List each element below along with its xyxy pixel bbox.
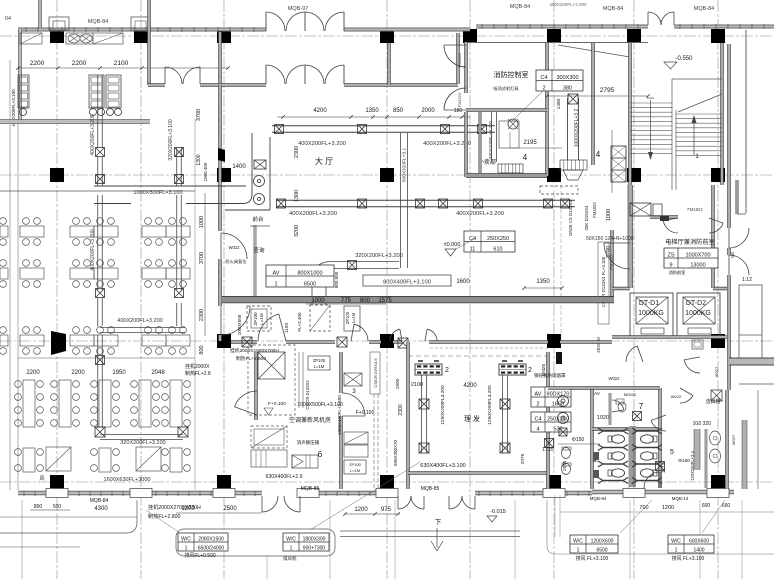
svg-text:2100: 2100 [411,382,423,388]
svg-text:320X200FL+3.100: 320X200FL+3.100 [168,119,174,161]
svg-text:6: 6 [318,450,323,459]
svg-text:挂机2000X: 挂机2000X [185,363,210,370]
svg-text:250X250: 250X250 [487,236,509,242]
urinals [558,428,600,475]
office riser duct upper [90,75,105,186]
corridor north wall thick [222,297,614,303]
svg-text:MQB-97: MQB-97 [288,6,308,12]
svg-text:制热FL+2.800: 制热FL+2.800 [148,512,181,520]
svg-text:13000: 13000 [690,262,705,268]
svg-text:2000X1500: 2000X1500 [198,536,224,542]
svg-text:制热FL+2.800: 制热FL+2.800 [236,355,266,362]
svg-text:FM1022: FM1022 [457,52,462,67]
office duct lower [39,335,188,483]
svg-text:2075: 2075 [520,453,526,464]
svg-text:2: 2 [536,401,539,407]
svg-text:3700: 3700 [196,109,202,121]
left exterior boundary [10,0,41,490]
svg-text:4300: 4300 [94,506,108,512]
svg-text:2300: 2300 [294,146,300,158]
svg-text:320X200FL+3.200: 320X200FL+3.200 [355,253,403,259]
table AV 800X1000 [266,265,334,287]
barber fan coil units [415,361,532,375]
svg-text:1000: 1000 [311,298,325,304]
svg-text:975: 975 [381,507,392,513]
svg-text:消防控制室: 消防控制室 [494,70,529,79]
svg-text:MQB-85: MQB-85 [421,486,440,492]
svg-text:600: 600 [702,503,711,509]
shop south wall [466,112,547,178]
barber labels [393,378,526,469]
svg-text:1350: 1350 [536,279,550,285]
svg-text:900+7300: 900+7300 [303,545,326,551]
svg-text:MQB-84: MQB-84 [510,4,530,10]
svg-text:L=1M: L=1M [350,468,360,473]
svg-text:C4: C4 [534,416,541,422]
svg-text:W022: W022 [229,245,241,250]
svg-text:4: 4 [596,150,601,159]
svg-text:CS/CR D133X4: CS/CR D133X4 [305,380,310,410]
elevator lobby walls [611,185,715,296]
svg-text:1000X700: 1000X700 [685,252,710,258]
svg-text:DT-D2: DT-D2 [686,300,706,307]
svg-text:查询: 查询 [253,246,265,254]
bottom dims left [176,506,262,513]
sidewalk steps bottom left [0,500,520,579]
svg-text:大 厅: 大 厅 [315,156,333,166]
svg-text:FM1822: FM1822 [687,207,703,212]
svg-text:DT-D1: DT-D1 [639,300,659,307]
svg-text:AV: AV [535,391,542,397]
svg-text:800: 800 [360,298,371,304]
svg-text:W/C: W/C [181,536,191,542]
misc text right corridor [534,352,566,379]
svg-text:理 发: 理 发 [464,414,480,423]
duct y265 320X200 with drop [312,253,470,304]
svg-text:1480: 1480 [556,98,562,109]
table WC 1200X600 [570,535,618,562]
svg-text:4: 4 [523,153,528,162]
bottom exterior curtain wall [18,489,734,498]
svg-text:ZP100: ZP100 [313,358,326,363]
AHU room labels [265,395,374,480]
svg-text:2100: 2100 [114,60,129,67]
svg-text:F+0.100: F+0.100 [268,401,286,407]
right corridor ramp [728,30,774,390]
reception partition [250,215,270,300]
svg-text:800: 800 [199,345,205,354]
barber tables AV C4 [531,387,571,453]
svg-text:530: 530 [553,426,562,432]
svg-text:MQB-84: MQB-84 [90,498,109,504]
svg-text:11: 11 [470,246,476,252]
leader lines bottom [146,462,725,533]
svg-text:W/C: W/C [671,538,681,544]
svg-text:1: 1 [274,281,277,287]
doors south of elevator hall [594,346,719,396]
svg-text:FM1022: FM1022 [457,92,462,107]
fire room doors [444,45,466,110]
svg-text:320X200FL+3.200: 320X200FL+3.200 [120,440,165,446]
svg-text:钢砼板防雨烟罩: 钢砼板防雨烟罩 [534,372,566,379]
svg-text:1725: 1725 [542,447,554,453]
bottom wall labels [30,486,689,512]
main riser duct 1000X200 [523,94,601,180]
svg-text:MQB-84: MQB-84 [88,19,108,25]
svg-text:2: 2 [542,85,545,91]
svg-text:W022: W022 [609,376,621,381]
svg-text:400X200FL+3.200: 400X200FL+3.200 [298,141,346,147]
level ±0.000 lobby [444,238,476,256]
svg-text:AV: AV [594,391,600,396]
lobby label [294,146,333,237]
svg-text:W/C: W/C [573,538,583,544]
svg-text:6500: 6500 [304,281,316,287]
svg-text:吸顶式射灯具: 吸顶式射灯具 [493,85,519,92]
curtain wall labels [5,2,714,25]
svg-text:400X200FL+3.200: 400X200FL+3.200 [488,121,493,159]
svg-text:ZP100: ZP100 [253,312,258,326]
corridor silencer boxes [237,305,360,335]
svg-text:7: 7 [639,402,644,411]
svg-text:610: 610 [493,246,502,252]
ceiling fan and dim 2195 [508,119,562,148]
toilet walls [548,387,661,489]
svg-text:M0: M0 [730,251,735,257]
svg-text:4200: 4200 [313,108,327,114]
svg-text:500: 500 [53,504,62,510]
table C4 300X300 [512,70,583,121]
svg-text:300X300: 300X300 [556,75,578,81]
entrance canopy and window sill fixtures top-left [20,17,150,44]
dim 2795 [545,87,650,98]
svg-text:1575: 1575 [562,460,568,471]
svg-text:下: 下 [435,518,442,526]
corridor south wall with doors [231,314,612,356]
svg-text:L=1M: L=1M [314,364,325,369]
svg-text:25X860: 25X860 [596,337,601,353]
coat-room cabinets [11,75,122,127]
svg-text:775: 775 [341,298,352,304]
svg-text:L=1M: L=1M [351,312,356,323]
level -0.550 [664,56,693,69]
svg-text:1200: 1200 [181,506,195,512]
table WC 2000X1500 [178,533,228,559]
svg-text:前台: 前台 [252,215,264,223]
table WC 1800X300 [283,533,329,562]
svg-text:400X200FL+3.200: 400X200FL+3.200 [423,141,471,147]
svg-text:800X1000: 800X1000 [297,270,322,276]
AHU room walls [255,352,343,489]
svg-text:400X200FL+2.000: 400X200FL+2.000 [549,2,587,7]
svg-text:2000: 2000 [421,108,435,114]
svg-text:Φ150: Φ150 [678,458,690,464]
svg-text:500X320FL+3.1: 500X320FL+3.1 [402,148,408,183]
svg-text:1250X200FL3.200: 1250X200FL3.200 [487,385,493,425]
svg-text:DN25: DN25 [541,364,547,377]
shaft grille near stair [611,146,626,182]
toilet labels [562,402,690,488]
columns (black squares at grid intersections) [50,29,725,489]
vertical duct 500X320 lobby [401,133,408,268]
svg-text:9: 9 [669,262,672,268]
svg-text:800: 800 [34,504,43,510]
entrance vestibule double doors [266,12,344,84]
svg-text:2195: 2195 [523,140,537,146]
svg-text:1400: 1400 [693,547,704,553]
svg-text:3200: 3200 [294,225,300,237]
office duct runs middle [90,175,185,333]
svg-text:2200: 2200 [26,370,40,376]
wash basins right [651,388,722,488]
svg-text:6500/24000: 6500/24000 [198,545,225,551]
double door top right [648,12,674,25]
svg-text:W027: W027 [731,434,736,445]
svg-text:2: 2 [528,367,532,374]
svg-text:1: 1 [675,547,678,553]
svg-text:1: 1 [185,545,188,551]
svg-text:M0922: M0922 [624,392,637,397]
down arrow bottom [431,518,443,551]
duct y203 400X200 [276,199,575,217]
svg-text:1400: 1400 [232,164,246,170]
svg-text:910 320: 910 320 [693,421,711,427]
vestibule partition walls [148,0,460,86]
office desks horizontal rows [0,218,190,355]
table C4 250X250 lobby [464,231,515,252]
svg-text:排风机: 排风机 [283,555,297,562]
svg-text:MQB-85: MQB-85 [301,486,320,492]
elevators DT-D1 DT-D2 [612,287,727,349]
svg-text:650: 650 [722,503,731,509]
svg-text:850: 850 [393,108,404,114]
svg-text:排风 FL+3.100: 排风 FL+3.100 [672,555,705,562]
svg-text:消防前室: 消防前室 [669,269,686,276]
doors in lobby west wall [221,233,250,335]
svg-text:1000KG: 1000KG [685,310,711,317]
office riser duct 320X200 [168,109,208,186]
svg-text:1000X400FL+3.400: 1000X400FL+3.400 [337,395,342,435]
svg-text:防火阀复位: 防火阀复位 [226,258,247,265]
barber vertical ducts [419,375,510,453]
svg-text:380: 380 [563,85,572,91]
svg-text:1575: 1575 [378,298,392,304]
bottom dims center [293,507,400,516]
svg-text:排风FL+0.500: 排风FL+0.500 [184,552,215,559]
office partition walls left [0,119,195,490]
svg-text:2300: 2300 [398,404,404,416]
staircase [629,43,724,190]
lobby west wall x220 [219,85,222,341]
AHU silencer and fan [251,426,366,474]
svg-text:1000X200FL+3.2: 1000X200FL+3.2 [574,109,580,148]
svg-text:1900: 1900 [395,378,401,389]
svg-text:1950: 1950 [112,370,126,376]
svg-text:AV: AV [273,270,280,276]
svg-text:W022: W022 [671,394,682,399]
vent shaft at lobby [630,203,669,221]
svg-text:50X150 124+N+1000: 50X150 124+N+1000 [586,236,634,242]
AHU indoor unit box [230,345,295,415]
svg-text:1000KG: 1000KG [638,310,664,317]
svg-text:600X600: 600X600 [689,538,709,544]
level -0.015 [487,509,506,522]
svg-text:1200: 1200 [662,505,674,511]
svg-text:W/C: W/C [286,536,296,542]
svg-text:风: 风 [39,476,44,482]
elevator lobby label and table [664,238,718,276]
svg-text:空调兼新风机房: 空调兼新风机房 [289,416,331,424]
table WC 600X600 [668,535,714,562]
svg-text:C4: C4 [540,75,547,81]
svg-text:1600: 1600 [456,279,470,285]
svg-text:2300: 2300 [199,309,205,321]
toilet stalls and WCs [598,428,662,484]
svg-text:25K D153X4: 25K D153X4 [584,205,589,230]
svg-text:1: 1 [290,545,293,551]
svg-text:2200: 2200 [72,60,87,67]
svg-text:W027: W027 [714,366,719,377]
svg-text:3700: 3700 [199,252,205,264]
svg-text:1200X600: 1200X600 [591,538,614,544]
svg-text:Φ150: Φ150 [572,437,585,443]
svg-text:1000 400: 1000 400 [203,162,208,181]
svg-text:4200: 4200 [463,383,477,389]
svg-text:1100: 1100 [284,323,290,334]
svg-text:1:12: 1:12 [742,277,752,283]
svg-text:1250X200FL3.200: 1250X200FL3.200 [440,385,446,425]
svg-text:排风 FL+3.100: 排风 FL+3.100 [576,555,609,562]
fire room duct and grille [488,112,523,177]
svg-text:2500: 2500 [223,506,237,512]
svg-text:MQB-84: MQB-84 [590,496,607,501]
svg-text:MQB-14: MQB-14 [672,496,689,501]
svg-text:1: 1 [577,547,580,553]
svg-text:500X300X70: 500X300X70 [393,439,398,466]
svg-text:2795: 2795 [600,87,615,94]
svg-text:1300: 1300 [294,190,300,202]
svg-text:L=1M: L=1M [259,313,264,325]
svg-text:FM1822: FM1822 [609,254,614,270]
bottom unit label [148,503,201,520]
svg-text:1920: 1920 [597,415,609,421]
svg-text:1000X500: 1000X500 [237,314,242,335]
bottom dims right [639,503,730,511]
pipe labels near elevator [522,185,634,353]
svg-text:MQB-84: MQB-84 [603,6,623,12]
svg-text:挂机2000X1600X700H: 挂机2000X1600X700H [230,347,279,354]
vertical dimension strip [199,130,612,355]
office desks vertical rows [15,380,191,472]
svg-text:400X200FL+3.200: 400X200FL+3.200 [90,229,96,271]
svg-text:1000: 1000 [606,209,612,221]
svg-text:消声静压箱: 消声静压箱 [297,439,320,446]
double door lobby west [165,67,200,84]
elevator lobby doors [604,207,723,270]
svg-text:4: 4 [536,426,539,432]
svg-text:120X250FL+3.4: 120X250FL+3.4 [690,450,695,481]
svg-text:400X200FL+3.200: 400X200FL+3.200 [456,211,504,217]
svg-text:ZP100: ZP100 [349,462,362,467]
svg-text:2200: 2200 [30,60,45,67]
svg-text:1800X300: 1800X300 [303,536,326,542]
svg-text:1600X630FL+3000: 1600X630FL+3000 [104,477,151,483]
svg-text:1300: 1300 [196,154,202,165]
svg-text:400X200FL+3.200: 400X200FL+3.200 [90,114,96,156]
svg-text:FM1822: FM1822 [592,202,597,218]
barber room walls [407,342,550,489]
svg-text:180: 180 [454,108,463,114]
toilet right boundary walls [726,390,758,489]
svg-text:1350: 1350 [365,108,379,114]
svg-text:6500: 6500 [596,547,607,553]
svg-text:-0.550: -0.550 [675,56,693,62]
svg-text:2048: 2048 [151,370,165,376]
fire room labels [478,70,529,166]
svg-text:5: 5 [670,449,674,456]
svg-text:FL+2.400: FL+2.400 [297,312,302,332]
svg-text:-0.015: -0.015 [490,509,506,515]
svg-text:MQB-84: MQB-84 [694,6,714,12]
dimension line 2200 2200 2100 [16,60,230,70]
fire control room walls [465,42,648,177]
svg-text:2200: 2200 [71,370,85,376]
svg-text:DN25 CS D133X4: DN25 CS D133X4 [568,200,573,236]
svg-text:2: 2 [445,367,449,374]
svg-text:800 600: 800 600 [334,271,339,288]
svg-text:630X400FL+2.9: 630X400FL+2.9 [265,474,302,480]
svg-text:400X200FL+3.200: 400X200FL+3.200 [289,211,337,217]
svg-text:±0.000: ±0.000 [444,242,461,248]
office dims 2200 2200 1950 2048 [18,358,211,377]
svg-text:电梯厅兼消防前室: 电梯厅兼消防前室 [665,238,715,246]
svg-text:400X200FL+3.200: 400X200FL+3.200 [117,318,162,324]
lobby dimension line [277,108,470,119]
svg-text:ZS: ZS [667,252,674,258]
svg-text:ZP100: ZP100 [345,311,350,324]
setting out lines bottom [267,495,774,579]
svg-text:制热FL+2.8: 制热FL+2.8 [185,370,211,377]
svg-text:800X400FL+3.100: 800X400FL+3.100 [383,280,431,286]
svg-text:630X400FL+3.100: 630X400FL+3.100 [420,463,465,469]
svg-text:1000: 1000 [199,216,205,228]
bottom wall exit doors [262,496,475,512]
corridor dim 1000 775 800 1575 [306,298,392,304]
toilet room 7 fixtures [609,392,642,425]
AHU room small equipment [299,352,380,489]
wide duct 1000X500 and elbow [94,133,270,210]
svg-text:04: 04 [5,16,11,22]
wall pier wedge [218,148,225,162]
lobby supply duct y129 400X200 [272,125,495,148]
svg-text:1200: 1200 [354,507,368,513]
svg-text:CS/CR D76X3.5: CS/CR D76X3.5 [373,358,378,388]
top exterior curtain wall [18,24,774,32]
